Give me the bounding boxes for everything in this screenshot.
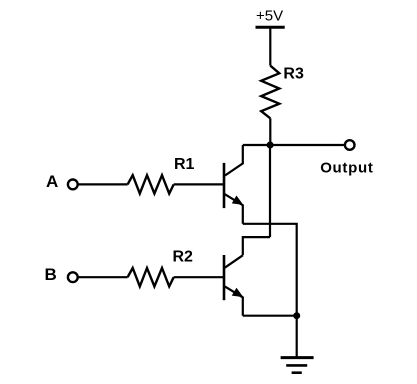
- wire: Q1 emitter run to ground rail: [243, 224, 297, 316]
- transistor Q1: [224, 145, 243, 224]
- ground: [281, 316, 314, 373]
- svg-text:A: A: [46, 172, 58, 191]
- resistor R3: [261, 66, 279, 119]
- wire: node down (crossover, no junction): [269, 145, 271, 237]
- terminal A (open circle): [68, 180, 78, 190]
- wire: collector node to output terminal: [270, 144, 344, 146]
- wire: terminal A to R1: [78, 183, 128, 185]
- wire: R3 bottom to collector node: [269, 118, 271, 145]
- wire: R1 to Q1 base: [174, 183, 224, 185]
- wire: Q2 emitter to ground node: [243, 315, 297, 317]
- node: collector junction dot: [267, 142, 274, 149]
- svg-text:B: B: [45, 265, 57, 284]
- wire: Q1 collector to node: [243, 144, 270, 146]
- power +5V bar: [256, 26, 285, 29]
- svg-text:R1: R1: [174, 156, 195, 173]
- svg-text:Output: Output: [320, 159, 373, 176]
- wire: terminal B to R2: [78, 276, 128, 278]
- wire: R2 to Q2 base: [174, 276, 224, 278]
- svg-text:+5V: +5V: [256, 7, 283, 24]
- resistor R2: [128, 268, 174, 286]
- transistor Q2: [224, 255, 243, 316]
- svg-text:R3: R3: [283, 66, 304, 83]
- terminal B (open circle): [68, 272, 78, 282]
- terminal Output (open circle): [345, 140, 355, 150]
- svg-text:R2: R2: [173, 249, 194, 266]
- node: ground junction dot: [293, 312, 300, 319]
- resistor R1: [128, 175, 174, 193]
- wire: crossover to Q2 collector lead: [243, 237, 270, 255]
- wire: +5V bar to R3 top: [269, 27, 271, 65]
